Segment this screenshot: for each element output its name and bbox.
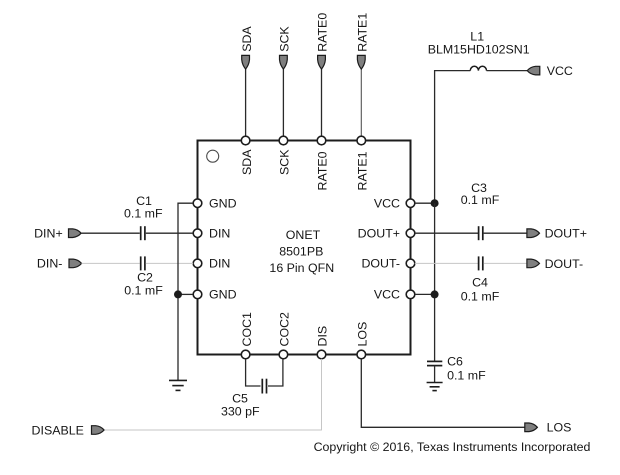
svg-text:0.1 mF: 0.1 mF	[124, 283, 163, 297]
pin DIN row2	[193, 227, 230, 241]
inductor L1 wire from VCC rail	[435, 71, 471, 204]
pin VCC bottom-right	[374, 288, 415, 302]
pin RATE1	[356, 136, 370, 190]
pin DIS	[316, 326, 330, 359]
wire DOUT- to C4 (light)	[415, 262, 478, 264]
wire DIN- to C2 (light)	[82, 262, 140, 264]
op-amp U1 ONET8501PB body	[198, 141, 411, 355]
svg-text:C5: C5	[232, 392, 248, 406]
svg-text:DIS: DIS	[316, 326, 330, 347]
svg-text:COC2: COC2	[278, 312, 292, 347]
pin VCC top-right	[374, 197, 415, 211]
ground right	[427, 383, 443, 391]
capacitor C4	[461, 256, 500, 303]
svg-text:DOUT+: DOUT+	[358, 227, 400, 241]
pin-1 marker	[207, 150, 219, 162]
wire C6 to ground	[434, 366, 436, 383]
terminal SCK	[278, 26, 292, 70]
svg-text:SCK: SCK	[278, 149, 292, 175]
wire C4 to DOUT- terminal (light)	[484, 262, 527, 264]
wire GND pin bottom stub	[178, 293, 193, 295]
capacitor C5	[221, 379, 266, 419]
wire C3 to DOUT+ terminal	[484, 232, 527, 234]
wire LOS	[361, 359, 525, 428]
svg-text:DIN: DIN	[209, 257, 230, 271]
terminal DISABLE	[32, 423, 105, 437]
wire C2 to DIN pin (light)	[146, 262, 193, 264]
svg-text:GND: GND	[209, 197, 237, 211]
svg-text:BLM15HD102SN1: BLM15HD102SN1	[428, 42, 530, 56]
wire C1 to DIN pin	[146, 232, 193, 234]
ground left	[169, 380, 187, 390]
svg-text:DOUT-: DOUT-	[361, 257, 400, 271]
svg-text:RATE0: RATE0	[316, 151, 330, 190]
terminal RATE1	[356, 13, 370, 69]
svg-text:DISABLE: DISABLE	[32, 423, 84, 437]
pin SCK	[278, 136, 292, 175]
pin COC1	[240, 312, 254, 359]
wire SCK vertical	[282, 67, 284, 141]
svg-text:C4: C4	[472, 276, 488, 290]
wire DISABLE (light)	[105, 429, 322, 431]
terminal LOS	[525, 421, 572, 435]
svg-text:SDA: SDA	[240, 26, 254, 52]
wire RATE0 vertical	[321, 67, 323, 141]
svg-text:330 pF: 330 pF	[221, 405, 260, 419]
svg-text:COC1: COC1	[240, 312, 254, 347]
svg-text:ONET: ONET	[286, 228, 321, 242]
wire GND bracket left	[178, 203, 193, 380]
capacitor C2	[124, 256, 163, 297]
svg-text:LOS: LOS	[356, 322, 370, 347]
terminal RATE0	[316, 13, 330, 69]
label U1 name	[269, 228, 334, 275]
capacitor C3	[461, 181, 500, 240]
pin GND bottom-left	[193, 288, 236, 302]
svg-text:16 Pin QFN: 16 Pin QFN	[269, 261, 334, 275]
capacitor C1	[124, 194, 163, 240]
pin DOUT+	[358, 227, 415, 241]
wire VCC pin bottom stub	[415, 293, 435, 295]
svg-text:SCK: SCK	[278, 26, 292, 52]
wire L1 to VCC terminal	[487, 70, 528, 72]
svg-text:GND: GND	[209, 288, 237, 302]
wire VCC rail lower	[434, 203, 436, 361]
terminal VCC	[527, 64, 573, 78]
pin GND top-left	[193, 197, 236, 211]
svg-text:0.1 mF: 0.1 mF	[447, 368, 486, 382]
svg-text:Copyright © 2016, Texas Instru: Copyright © 2016, Texas Instruments Inco…	[314, 440, 591, 454]
pin DOUT-	[361, 257, 414, 271]
terminal SDA	[240, 26, 254, 70]
terminal DOUT-	[527, 257, 583, 271]
wire VCC pin top stub	[415, 202, 435, 204]
svg-text:LOS: LOS	[547, 421, 572, 435]
wire SDA vertical	[245, 67, 247, 141]
pin RATE0	[316, 136, 330, 190]
svg-text:0.1 mF: 0.1 mF	[461, 193, 500, 207]
wire DIN+ to C1	[81, 232, 140, 234]
svg-text:C6: C6	[447, 355, 463, 369]
svg-text:8501PB: 8501PB	[279, 245, 323, 259]
svg-text:0.1 mF: 0.1 mF	[124, 207, 163, 221]
pin SDA	[240, 136, 254, 175]
svg-text:DIN-: DIN-	[37, 257, 62, 271]
svg-text:DOUT-: DOUT-	[545, 257, 584, 271]
svg-text:RATE1: RATE1	[356, 13, 370, 52]
wire RATE1 vertical	[360, 67, 362, 141]
svg-text:DOUT+: DOUT+	[545, 227, 587, 241]
wire DIS down (light)	[321, 359, 323, 430]
junction GND left	[174, 290, 182, 298]
pin DIN row3	[193, 257, 230, 271]
svg-text:0.1 mF: 0.1 mF	[461, 290, 500, 304]
pin COC2	[278, 312, 292, 359]
svg-text:SDA: SDA	[240, 149, 254, 175]
svg-text:RATE0: RATE0	[316, 13, 330, 52]
junction VCC bottom	[431, 290, 439, 298]
inductor L1	[428, 30, 530, 71]
terminal DIN+	[34, 226, 81, 240]
capacitor C5 loop wire	[246, 359, 261, 386]
svg-text:VCC: VCC	[547, 64, 573, 78]
terminal DIN-	[37, 257, 82, 271]
svg-text:DIN+: DIN+	[34, 226, 63, 240]
junction VCC top	[431, 199, 439, 207]
svg-text:RATE1: RATE1	[356, 151, 370, 190]
wire DOUT+ to C3	[415, 232, 478, 234]
pin LOS	[356, 322, 370, 359]
svg-text:DIN: DIN	[209, 227, 230, 241]
terminal DOUT+	[527, 227, 587, 241]
svg-text:VCC: VCC	[374, 288, 400, 302]
svg-text:VCC: VCC	[374, 197, 400, 211]
capacitor C6	[427, 355, 486, 383]
